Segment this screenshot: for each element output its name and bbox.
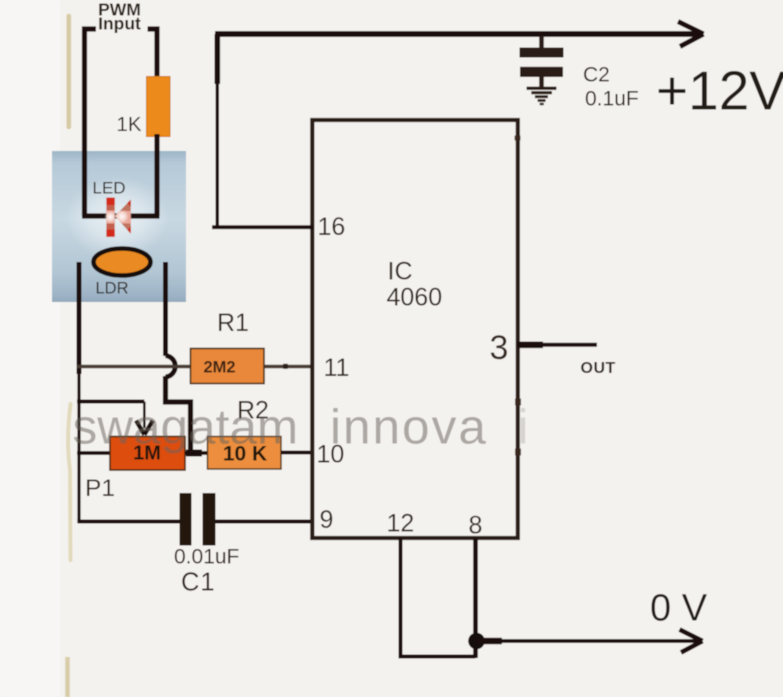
wire pin 12 bbox=[401, 538, 476, 657]
capacitor C1 bbox=[180, 493, 192, 546]
wire PWM input left leg bbox=[85, 29, 97, 216]
wire +12V rail bbox=[215, 31, 699, 37]
svg-text:C2: C2 bbox=[583, 64, 610, 87]
svg-text:LDR: LDR bbox=[96, 280, 129, 298]
svg-text:0.01uF: 0.01uF bbox=[174, 546, 239, 569]
svg-text:0.1uF: 0.1uF bbox=[585, 88, 639, 111]
svg-text:LED: LED bbox=[93, 179, 126, 198]
IC U1 4060 body bbox=[312, 120, 518, 538]
svg-text:16: 16 bbox=[318, 213, 346, 241]
potentiometer P1 1M bbox=[110, 437, 185, 471]
wire pin 11 line bbox=[77, 365, 314, 369]
wire P1 to R2 bbox=[185, 451, 208, 455]
wire P1 wiper horizontal bbox=[77, 400, 144, 404]
wire rail to C1 bbox=[77, 520, 180, 524]
svg-text:IC: IC bbox=[388, 258, 413, 286]
wire hop over pin-11 line bbox=[166, 356, 176, 378]
svg-text:i: i bbox=[518, 400, 529, 455]
wire P1 wiper vertical bbox=[143, 402, 146, 429]
wire rail to P1 bbox=[77, 451, 110, 455]
wire C1 to pin 9 bbox=[216, 520, 314, 524]
LED glow halo bbox=[65, 176, 169, 260]
capacitor C2 bbox=[539, 36, 544, 49]
svg-text:8: 8 bbox=[469, 512, 483, 540]
resistor R2 10K bbox=[208, 437, 282, 470]
svg-text:innova: innova bbox=[330, 400, 488, 455]
svg-text:R1: R1 bbox=[217, 309, 249, 337]
wire LDR right lead bbox=[163, 262, 168, 356]
svg-text:4060: 4060 bbox=[387, 284, 443, 312]
P1 wiper arrowhead bbox=[136, 421, 153, 435]
LDR bbox=[94, 249, 151, 276]
wire rail drop to pin 16 bbox=[215, 34, 221, 84]
wire 1K to LED loop bbox=[154, 134, 159, 216]
junction dot on pin 11 wire bbox=[283, 364, 288, 369]
svg-text:12: 12 bbox=[387, 510, 415, 538]
wire LDR left lead / left rail bbox=[77, 262, 82, 374]
svg-text:11: 11 bbox=[324, 354, 350, 382]
LED D1 bbox=[104, 198, 134, 238]
svg-text:+12V: +12V bbox=[656, 60, 783, 122]
resistor R 1K bbox=[147, 77, 171, 137]
svg-text:C1: C1 bbox=[181, 569, 216, 597]
ground symbol bbox=[527, 87, 557, 90]
+12V rail arrowhead bbox=[678, 22, 704, 47]
watermark swagatam innova bbox=[73, 400, 529, 455]
svg-text:9: 9 bbox=[320, 506, 334, 534]
wire pin 8 bbox=[473, 538, 478, 658]
wire LED horizontal bbox=[82, 213, 160, 218]
resistor R1 2M2 bbox=[191, 349, 265, 384]
junction dot 0V node bbox=[468, 633, 485, 650]
svg-text:Input: Input bbox=[98, 14, 141, 34]
wire PWM input right leg bbox=[148, 29, 158, 80]
svg-text:2M2: 2M2 bbox=[203, 359, 235, 377]
wire jog down to R2 junction bbox=[166, 376, 191, 452]
wire R2 to pin 10 bbox=[281, 451, 313, 455]
scan artifacts (beige marks) bbox=[67, 16, 72, 127]
wire 0V line bbox=[477, 639, 699, 643]
svg-text:OUT: OUT bbox=[581, 360, 616, 377]
svg-text:0 V: 0 V bbox=[650, 588, 708, 630]
optocoupler enclosure bbox=[52, 151, 186, 302]
svg-text:3: 3 bbox=[490, 329, 509, 367]
0V arrowhead bbox=[680, 630, 703, 653]
pin tick marks on right edge bbox=[515, 136, 521, 141]
svg-text:P1: P1 bbox=[85, 475, 115, 502]
junction nub at P1/R2 node bbox=[186, 450, 202, 457]
svg-text:1K: 1K bbox=[116, 113, 141, 136]
svg-text:swagatam: swagatam bbox=[73, 400, 299, 455]
wire pin 3 output bbox=[517, 343, 597, 347]
